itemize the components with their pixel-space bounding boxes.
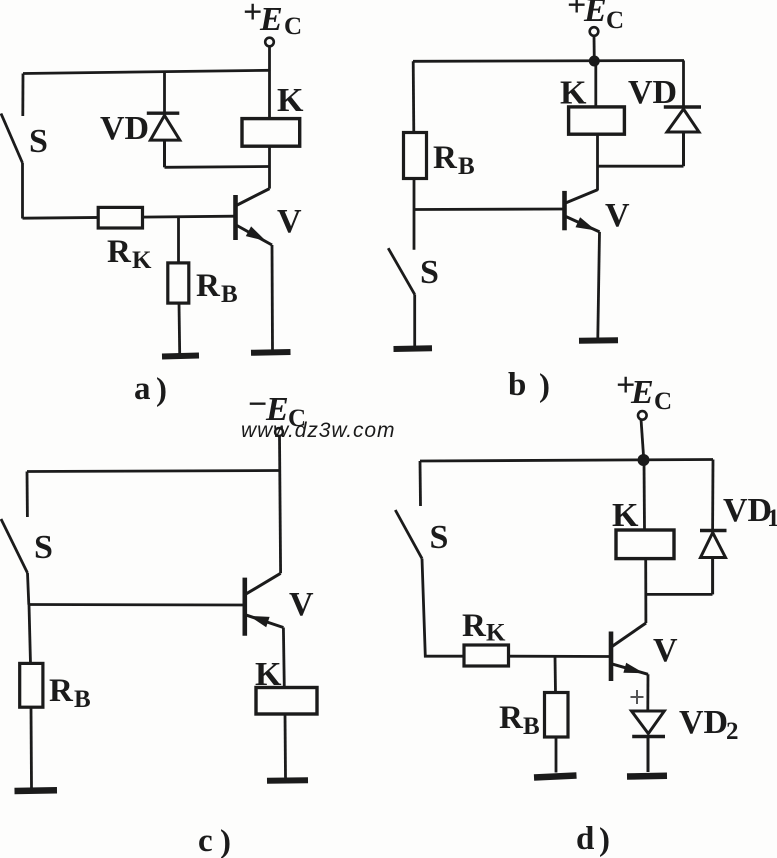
wire switch to base node (c) [28, 573, 29, 605]
transistor V (a) [236, 189, 273, 245]
svg-text:B: B [523, 713, 540, 740]
svg-text:R: R [49, 673, 74, 709]
svg-text:E: E [630, 374, 654, 411]
label RK (d) [462, 608, 506, 647]
svg-text:K: K [132, 247, 152, 274]
svg-text:V: V [289, 586, 314, 623]
resistor RB (b) [404, 133, 427, 179]
ground (a emitter) [251, 349, 291, 356]
svg-text:b: b [508, 367, 526, 403]
supply terminal (a) [265, 38, 274, 47]
wire top rail to relay (a) [268, 70, 271, 118]
caption d) [576, 821, 610, 858]
supply terminal (b) [590, 27, 599, 36]
ground (b emitter) [579, 337, 618, 344]
resistor RK (d) [464, 645, 509, 666]
transistor V (b) [565, 190, 600, 232]
ground (a RB) [162, 356, 199, 357]
svg-text:V: V [277, 203, 302, 240]
svg-text:d: d [576, 821, 594, 857]
wire base node to RB (d) [554, 656, 557, 693]
wire base rail (c) [29, 603, 245, 606]
wire left drop to RB (b) [412, 61, 415, 133]
ground (d RB) [534, 776, 577, 778]
wire relay to collector (b) [596, 134, 599, 190]
ground (c RB) [15, 787, 58, 794]
switch S blade (d) [395, 510, 422, 559]
svg-text:1: 1 [767, 505, 777, 532]
svg-text:K: K [277, 82, 304, 119]
supply label -EC (c) [248, 386, 306, 432]
relay coil K (a) [242, 119, 300, 147]
wire emitter to ground (a) [271, 245, 274, 350]
supply label +EC (d) [616, 367, 672, 415]
svg-text:R: R [196, 268, 221, 304]
supply label +EC (b) [567, 0, 624, 34]
wire emitter to diode VD2 (d) [646, 674, 649, 711]
wire top rail (c) [27, 471, 280, 472]
relay coil K (d) [616, 530, 674, 559]
switch S blade (c) [1, 519, 28, 573]
wire terminal to junction (d) [641, 419, 644, 460]
svg-text:c: c [198, 823, 213, 858]
resistor RB (c) [20, 663, 43, 707]
svg-text:): ) [599, 822, 610, 858]
transistor V (d) [611, 623, 648, 681]
svg-text:E: E [259, 1, 283, 38]
caption a) [134, 371, 167, 408]
wire relay to ground (c) [284, 714, 287, 778]
svg-text:VD: VD [723, 492, 772, 529]
wire left drop to switch (d) [419, 461, 422, 506]
wire top rail to diode VD (a) [163, 72, 166, 113]
svg-text:2: 2 [726, 718, 739, 745]
wire junction to relay (b) [594, 61, 597, 107]
label RB (a) [196, 268, 238, 308]
label VD1 (d) [723, 492, 777, 532]
svg-text:S: S [430, 519, 449, 556]
wire RB to ground (c) [30, 707, 33, 787]
wire switch to RK rail (d) [422, 559, 464, 657]
junction dot (d) [638, 454, 650, 466]
svg-text:R: R [107, 234, 132, 270]
wire relay to collector (a) [268, 146, 271, 188]
svg-text:S: S [34, 529, 53, 566]
svg-text:VD: VD [679, 704, 728, 741]
wire junction to relay (d) [643, 461, 646, 531]
wire left drop to switch (c) [26, 472, 29, 518]
wire top rail (a) [23, 70, 270, 73]
transistor V (c) [245, 573, 284, 635]
svg-text:www.dz3w.com: www.dz3w.com [241, 419, 395, 442]
svg-text:B: B [74, 686, 91, 713]
wire diode to collector node (a) [165, 165, 270, 169]
switch S blade (b) [388, 248, 415, 294]
resistor RB (a) [168, 263, 189, 303]
svg-text:): ) [539, 368, 550, 404]
relay coil K (b) [569, 107, 625, 134]
svg-text:B: B [458, 153, 475, 180]
label RB (b) [433, 140, 475, 180]
wire top rail to diode VD (b) [682, 61, 685, 107]
wire top rail (b) [413, 59, 684, 63]
svg-text:V: V [653, 632, 678, 669]
wire collector node to diode VD1 (d) [646, 593, 713, 596]
svg-text:C: C [654, 388, 672, 415]
svg-text:): ) [156, 372, 167, 408]
ground (b switch) [394, 345, 433, 352]
wire switch to ground (b) [413, 294, 416, 346]
svg-text:a: a [134, 371, 151, 407]
supply terminal (d) [638, 411, 647, 420]
supply label +EC (a) [243, 0, 302, 40]
resistor RB (d) [545, 693, 569, 738]
diode VD1 (d) [700, 531, 727, 595]
svg-text:C: C [284, 13, 302, 40]
wire RB to switch (b) [413, 179, 416, 250]
wire emitter to relay (c) [282, 628, 286, 689]
svg-text:S: S [29, 123, 48, 160]
diode VD (b) [664, 107, 701, 166]
wire top rail to diode VD1 (d) [711, 460, 714, 531]
label RB (c) [49, 673, 91, 713]
wire terminal to top rail (a) [268, 47, 271, 71]
wire terminal to junction (b) [593, 36, 596, 61]
diode VD2 (d) [632, 711, 666, 772]
label RK (a) [107, 234, 152, 274]
wire top rail (d) [420, 460, 713, 462]
wire base node to RB (c) [29, 605, 31, 664]
svg-text:R: R [433, 140, 458, 176]
resistor RK (a) [98, 207, 142, 228]
wire base rail (d) [509, 655, 611, 658]
wire collector node to diode (b) [598, 165, 684, 168]
supply terminal (c) [275, 428, 283, 436]
wire RB to ground (d) [555, 737, 558, 773]
wire RB to ground (a) [178, 303, 181, 354]
ground (d VD2) [627, 773, 667, 780]
wire base rail (a) [23, 216, 236, 218]
ground (c relay) [267, 777, 308, 784]
wire base rail (b) [414, 208, 565, 211]
svg-text:S: S [420, 254, 439, 291]
svg-text:): ) [220, 824, 231, 858]
svg-text:E: E [583, 0, 607, 29]
wire terminal to collector (c) [280, 436, 281, 573]
svg-text:C: C [606, 7, 624, 34]
svg-text:B: B [221, 281, 238, 308]
svg-text:R: R [462, 608, 487, 644]
junction dot (b) [589, 56, 600, 67]
label VD2 (d) [679, 704, 739, 745]
svg-text:VD: VD [100, 110, 149, 147]
svg-text:V: V [605, 197, 630, 234]
polarity mark + (d) [631, 690, 644, 704]
wire base node to RB (a) [177, 217, 180, 264]
relay coil K (c) [256, 688, 317, 715]
svg-text:R: R [499, 700, 524, 736]
caption b) [508, 367, 550, 404]
wire left drop to switch (a) [21, 74, 24, 117]
diode VD (a) [147, 113, 180, 167]
svg-text:K: K [486, 620, 506, 647]
caption c) [198, 823, 231, 858]
wire switch to base rail (a) [21, 163, 24, 219]
label RB (d) [499, 700, 540, 740]
switch S blade (a) [1, 114, 23, 164]
wire emitter to ground (b) [598, 232, 600, 338]
svg-text:−: − [248, 386, 267, 423]
wire relay to collector corner (d) [644, 559, 647, 623]
